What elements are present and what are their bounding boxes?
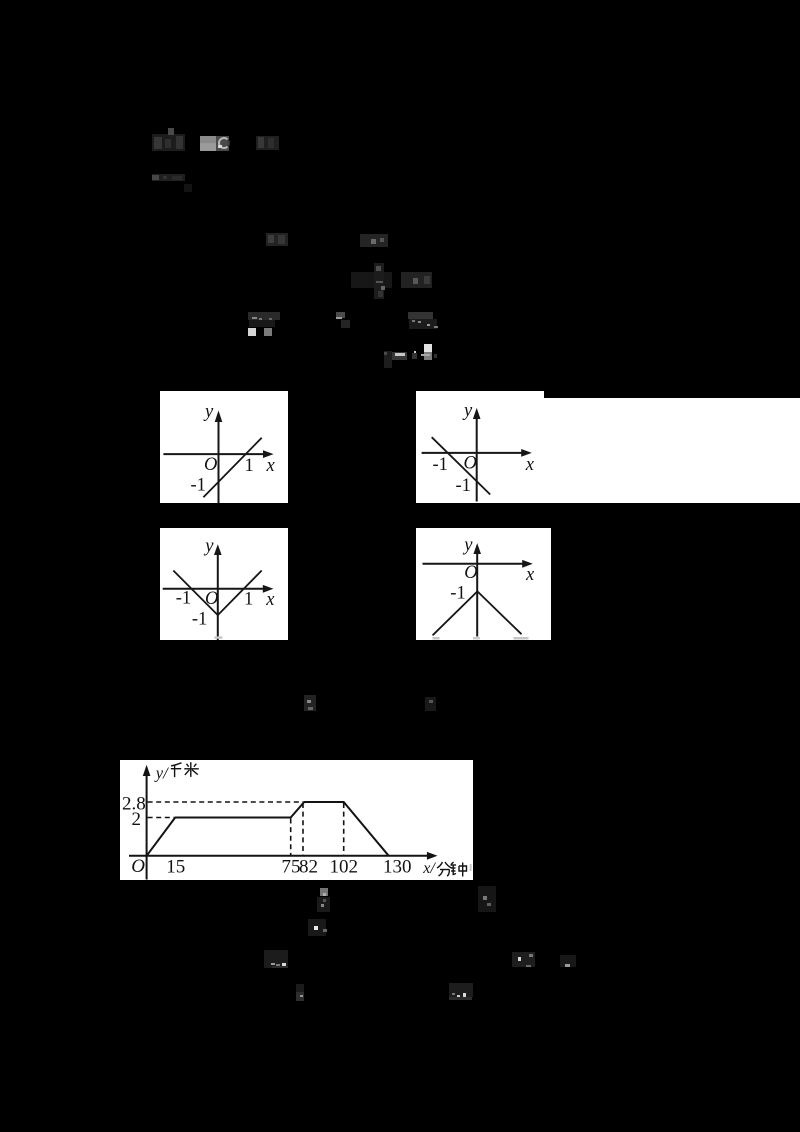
svg-text:-1: -1 [432, 454, 447, 474]
svg-text:75: 75 [281, 857, 300, 878]
remnant cluster 44 with triangle [264, 950, 288, 968]
svg-text:O: O [205, 588, 218, 608]
remnant highlighted block with C glyph [200, 136, 216, 143]
svg-text:1: 1 [245, 456, 254, 476]
dashed level 2.8 [147, 801, 302, 803]
svg-text:-1: -1 [455, 475, 470, 495]
remnant fragment percent [266, 233, 288, 246]
remnant cluster right of chart [478, 886, 496, 912]
bright white-ish square [248, 328, 256, 336]
svg-text:130: 130 [383, 857, 412, 878]
remnant block pair [408, 312, 433, 319]
option C graph panel [160, 528, 288, 641]
x-axis A [163, 453, 265, 455]
y-axis A [218, 420, 220, 503]
dashed vertical at 102 [342, 803, 344, 855]
svg-text:y: y [203, 402, 214, 422]
svg-text:y: y [462, 535, 473, 555]
option B graph panel [416, 391, 545, 502]
remnant row with bright squares [248, 312, 280, 320]
svg-text:O: O [464, 563, 477, 583]
mid gray square [264, 328, 272, 336]
inverted V curve y=-|x|-1 [433, 591, 522, 635]
y-axis D [476, 552, 478, 637]
dashed vertical at 75 [289, 818, 291, 855]
V curve y=|x|-1 [173, 570, 261, 615]
remnant option letter B row [304, 695, 316, 711]
svg-text:x: x [265, 590, 275, 610]
svg-text:-1: -1 [176, 588, 191, 608]
line y=-x-1 [432, 437, 490, 494]
remnant fraction expression [351, 272, 392, 288]
x-axis B [421, 452, 522, 454]
remnant 2-like glyph [560, 955, 576, 967]
svg-text:x: x [266, 456, 276, 476]
y-axis chart [145, 773, 147, 880]
bright square of y=box expression [424, 344, 432, 352]
CJK qian (thousand) [171, 763, 182, 777]
remnant small block with dash [336, 312, 345, 318]
remnant cluster with bright dot [308, 919, 326, 936]
svg-text:x: x [525, 454, 535, 474]
remnant faint text row [152, 174, 185, 181]
remnant gray square below chart [320, 888, 328, 896]
x-axis chart [129, 855, 428, 857]
CJK fen (minute) [437, 862, 452, 876]
svg-text:15: 15 [166, 857, 185, 878]
remnant fragment ab0 [360, 234, 388, 247]
line y=x-1 [203, 438, 261, 497]
svg-text:O: O [204, 455, 217, 475]
svg-text:102: 102 [329, 857, 358, 878]
remnant small block lower-left [296, 984, 304, 993]
remnant right of fraction [401, 272, 432, 288]
faint mark bottom (C) [214, 636, 222, 639]
svg-text:y: y [462, 400, 473, 420]
svg-text:y: y [203, 536, 214, 556]
y-axis B [475, 417, 477, 501]
svg-text:-1: -1 [450, 583, 465, 603]
remnant fragment 2A [256, 136, 279, 150]
x-axis D [423, 562, 525, 564]
option D graph panel [416, 528, 551, 641]
svg-text:2: 2 [131, 809, 141, 830]
x-axis C [163, 587, 265, 589]
svg-text:1: 1 [244, 589, 253, 609]
option B white row background extending right [544, 398, 800, 503]
svg-text:x: x [525, 565, 535, 585]
CJK zhong (clock) [450, 862, 466, 877]
svg-text:x/: x/ [422, 860, 436, 877]
svg-text:82: 82 [299, 857, 318, 878]
svg-text:-1: -1 [191, 476, 206, 496]
remnant y=box expression [384, 351, 392, 368]
svg-text:O: O [131, 856, 145, 877]
dashed level 2 [147, 816, 173, 818]
remnant cluster mid-right [512, 952, 535, 967]
faint marks bottom (D) [433, 637, 440, 640]
distance-time chart panel [120, 760, 473, 880]
remnant faint glyphs below gray square [317, 897, 330, 912]
silver edge tick [469, 864, 471, 871]
remnant option letter D row [425, 697, 436, 711]
remnant cluster lower-mid with white marks [449, 983, 473, 997]
dashed vertical at 82 [302, 803, 304, 855]
journey polyline [146, 802, 388, 856]
svg-text:-1: -1 [192, 609, 207, 629]
svg-text:O: O [463, 453, 476, 473]
option A graph panel [160, 391, 288, 503]
remnant equation fragment 1 (dark glyphs) [152, 134, 185, 151]
y-axis C [217, 553, 219, 640]
svg-text:y/: y/ [154, 763, 169, 782]
CJK mi (meter) [184, 762, 199, 777]
